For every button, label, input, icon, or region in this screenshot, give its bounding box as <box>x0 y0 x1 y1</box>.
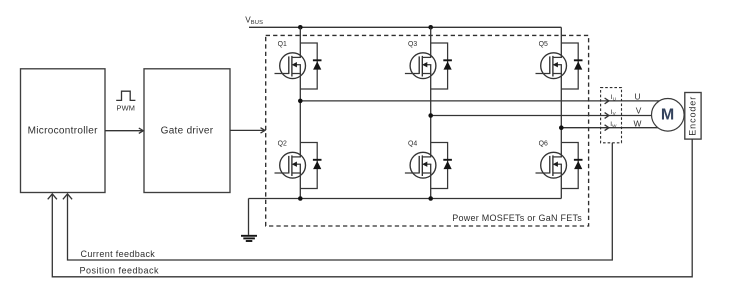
svg-text:Q1: Q1 <box>278 41 287 48</box>
ground <box>241 199 257 242</box>
svg-text:Gate driver: Gate driver <box>161 126 214 137</box>
junction dot phase W <box>559 125 564 130</box>
transistor Q2 <box>275 152 306 178</box>
wire phase U line <box>300 100 660 102</box>
svg-text:Q2: Q2 <box>278 141 287 148</box>
current sense arrow Iu <box>605 98 609 104</box>
svg-text:Q5: Q5 <box>539 41 548 48</box>
current sense arrow Iw <box>605 125 609 131</box>
encoder block <box>685 93 701 140</box>
svg-text:M: M <box>661 106 674 123</box>
PWM pulse symbol <box>116 91 135 100</box>
transistor Q3 <box>405 53 436 79</box>
diode D1 <box>300 43 321 89</box>
svg-text:Microcontroller: Microcontroller <box>28 126 98 137</box>
dashed current sensor box <box>601 88 622 143</box>
svg-text:V: V <box>636 106 642 116</box>
Gate driver block U-DRV <box>144 69 230 193</box>
transistor Q1 <box>275 53 306 79</box>
Microcontroller block U-MCU <box>21 69 106 193</box>
wire phase-C column verticals <box>560 27 562 198</box>
wire VBUS rail <box>249 26 561 28</box>
transistor Q5 <box>536 53 567 79</box>
dashed power stage box <box>266 35 589 226</box>
wire current feedback <box>68 143 613 260</box>
wire bottom DC bus <box>249 198 562 200</box>
svg-text:Q3: Q3 <box>408 41 417 48</box>
arrow current feedback into MCU <box>63 194 72 199</box>
svg-text:U: U <box>634 91 640 101</box>
svg-text:Position feedback: Position feedback <box>80 266 160 276</box>
svg-text:Q6: Q6 <box>539 141 548 148</box>
junction dot bus-Q4 <box>428 196 433 201</box>
diode D2 <box>300 143 321 189</box>
diode D4 <box>431 143 452 189</box>
transistor Q6 <box>536 152 567 178</box>
junction dot phase V <box>428 113 433 118</box>
svg-text:Encoder: Encoder <box>687 96 697 136</box>
wire phase-B column verticals <box>430 27 432 198</box>
junction dot VBUS-Q3 <box>428 25 433 30</box>
svg-text:PWM: PWM <box>116 104 135 113</box>
svg-text:Current feedback: Current feedback <box>81 249 156 259</box>
junction dot phase U <box>298 99 303 104</box>
wire position feedback <box>52 139 692 277</box>
diode D5 <box>561 43 582 89</box>
wire gate driver to power stage with arrow <box>230 128 265 133</box>
svg-text:Power MOSFETs or GaN FETs: Power MOSFETs or GaN FETs <box>452 213 582 223</box>
current sense arrow Iv <box>605 113 609 119</box>
wire phase V line <box>431 115 654 117</box>
diode D6 <box>561 143 582 189</box>
motor M <box>652 99 685 132</box>
wire phase W line <box>561 127 660 129</box>
wire phase-A column verticals <box>299 27 301 198</box>
arrow position feedback into MCU <box>48 194 57 199</box>
wire MCU to gate driver with arrow <box>105 128 143 133</box>
svg-text:Q4: Q4 <box>408 141 417 148</box>
junction dot bus-Q2 <box>298 196 303 201</box>
svg-text:W: W <box>634 119 642 129</box>
diode D3 <box>431 43 452 89</box>
junction dot VBUS-Q1 <box>298 25 303 30</box>
transistor Q4 <box>405 152 436 178</box>
